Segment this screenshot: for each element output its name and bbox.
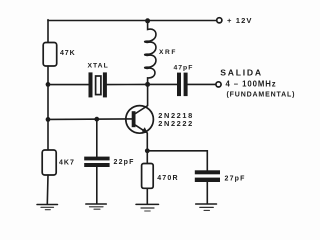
wire collector to transistor	[147, 84, 149, 105]
svg-text:4 – 100MHz: 4 – 100MHz	[226, 80, 277, 89]
wire emitter to 27pF branch	[147, 151, 207, 171]
svg-text:4K7: 4K7	[59, 159, 75, 166]
wire 4K7 to ground	[46, 175, 49, 204]
svg-text:+ 12V: + 12V	[227, 16, 253, 25]
capacitor C3 22pF	[84, 157, 109, 167]
wire 47pF to output	[188, 83, 216, 85]
transistor Q1 2N2218/2N2222	[126, 106, 154, 134]
svg-text:470R: 470R	[157, 175, 179, 182]
terminal +12V	[217, 18, 222, 23]
svg-text:XRF: XRF	[159, 49, 177, 56]
wire XTAL right	[107, 83, 148, 85]
svg-text:47pF: 47pF	[174, 64, 194, 71]
wire top rail +12V	[48, 20, 216, 22]
ground under 27pF	[196, 204, 217, 210]
wire left rail	[47, 20, 49, 43]
node B (base junction)	[46, 117, 51, 122]
svg-text:27pF: 27pF	[225, 176, 246, 183]
resistor R3 470R	[142, 164, 154, 189]
svg-text:XTAL: XTAL	[88, 63, 109, 70]
terminal SALIDA	[216, 82, 221, 87]
ground under 22pF	[86, 204, 107, 209]
capacitor C1 47pF	[177, 73, 188, 97]
svg-text:22pF: 22pF	[114, 159, 135, 166]
svg-text:2N2222: 2N2222	[158, 119, 194, 128]
capacitor C2 27pF	[195, 170, 220, 182]
wire XTAL left	[48, 84, 89, 86]
wire base	[48, 118, 132, 121]
node A (left/XTAL junction)	[46, 82, 51, 87]
ground under 470R	[136, 204, 159, 211]
crystal XTAL	[89, 72, 107, 97]
svg-text:47K: 47K	[60, 50, 76, 57]
node emitter junction	[145, 148, 150, 153]
wire emitter down	[146, 133, 148, 164]
wire 470R to ground	[146, 188, 148, 204]
wire 22pF branch down	[96, 119, 98, 156]
ground under 4K7	[37, 205, 58, 210]
wire 27pF to ground	[206, 182, 208, 204]
node collector junction	[145, 82, 150, 87]
inductor XRF	[145, 21, 156, 85]
wire 22pF to ground	[96, 167, 98, 204]
svg-text:(FUNDAMENTAL): (FUNDAMENTAL)	[227, 92, 296, 99]
node top of inductor	[145, 18, 150, 23]
resistor R1 47K	[43, 43, 57, 67]
wire left rail lower	[47, 66, 49, 151]
node 22pF junction	[94, 117, 99, 122]
svg-text:SALIDA: SALIDA	[220, 68, 262, 78]
wire collector node to 47pF	[148, 83, 177, 85]
resistor R2 4K7	[42, 150, 56, 175]
